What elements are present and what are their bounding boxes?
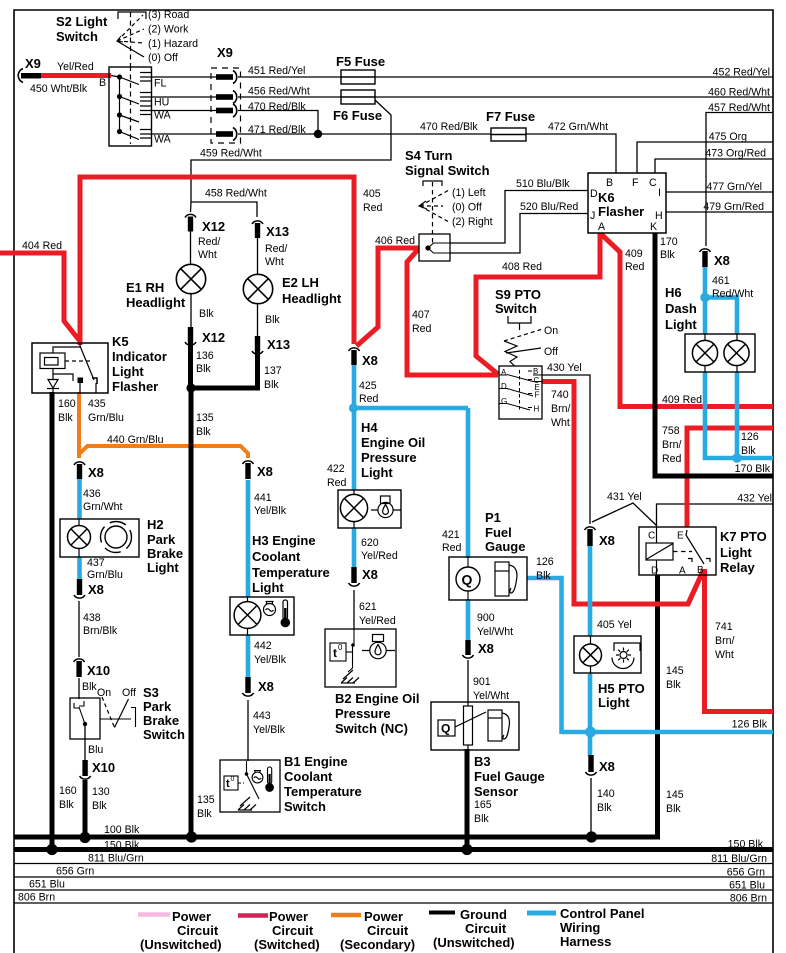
svg-text:P1: P1 <box>485 510 501 525</box>
lamp H6 left <box>692 334 717 372</box>
svg-text:Red/: Red/ <box>265 243 287 255</box>
svg-text:Pressure: Pressure <box>335 706 391 721</box>
svg-text:On: On <box>544 325 558 337</box>
svg-text:Temperature: Temperature <box>252 565 330 580</box>
wire 461 Red/Wht <box>703 265 708 300</box>
svg-text:Blk: Blk <box>196 363 211 375</box>
park brake switch S3 box <box>70 698 100 739</box>
relay K5 internals <box>40 343 96 393</box>
wire 473 Org/Red <box>655 159 773 173</box>
svg-text:K6: K6 <box>598 190 615 205</box>
oil pressure light H4 box <box>338 490 401 528</box>
svg-text:170 Blk: 170 Blk <box>735 463 771 475</box>
svg-text:Blk: Blk <box>741 445 756 457</box>
svg-text:G: G <box>501 397 507 406</box>
turn signal switch S4 box <box>419 234 450 261</box>
svg-text:Signal Switch: Signal Switch <box>405 163 490 178</box>
svg-text:Dash: Dash <box>665 301 697 316</box>
turn signal switch S4 selector <box>419 181 449 244</box>
svg-text:806 Brn: 806 Brn <box>730 893 767 905</box>
coolant temp light H3 box <box>230 597 294 635</box>
svg-text:441: 441 <box>254 492 272 504</box>
lamp E2 <box>243 274 272 303</box>
wire 458 Red/Wht <box>191 202 257 217</box>
svg-text:Light: Light <box>112 364 144 379</box>
svg-text:X12: X12 <box>202 330 225 345</box>
light switch S2 box <box>109 67 152 146</box>
svg-text:451 Red/Yel: 451 Red/Yel <box>248 65 305 77</box>
svg-text:407: 407 <box>412 309 430 321</box>
B1 thermometer icon <box>266 767 274 791</box>
svg-text:B: B <box>606 177 613 189</box>
svg-text:520 Blu/Red: 520 Blu/Red <box>520 201 578 213</box>
wire 145 Blk <box>14 575 658 837</box>
svg-text:X8: X8 <box>362 567 378 582</box>
P1 Q meter <box>456 567 480 591</box>
wire 621 Yel/Red <box>353 590 355 630</box>
svg-text:D: D <box>651 566 658 577</box>
wire 520 Blu/Red <box>450 214 588 254</box>
svg-text:Pressure: Pressure <box>361 450 417 465</box>
svg-text:Red: Red <box>662 453 682 465</box>
wire 126 Blk long horizontal <box>562 730 774 735</box>
svg-text:J: J <box>590 210 595 222</box>
svg-text:0: 0 <box>338 643 343 652</box>
connector X8 at 405 Red <box>349 348 360 365</box>
wire 421 Red <box>466 408 471 558</box>
svg-text:S4 Turn: S4 Turn <box>405 148 452 163</box>
wire 425 Red <box>352 365 357 410</box>
wire 443 Yel/Blk <box>247 700 249 761</box>
node cyan 126/H5 junction <box>585 727 596 738</box>
connector X12 bottom <box>185 327 196 345</box>
svg-text:457 Red/Wht: 457 Red/Wht <box>708 102 770 114</box>
svg-text:Ground: Ground <box>460 907 507 922</box>
svg-text:Blk: Blk <box>660 249 675 261</box>
connector X13 top <box>252 221 263 238</box>
svg-text:Red: Red <box>327 477 347 489</box>
wire 470 Red/Blk <box>238 111 318 135</box>
svg-text:C: C <box>649 177 657 189</box>
svg-text:B: B <box>99 77 106 89</box>
wire 457 Red/Wht <box>706 113 773 247</box>
wire 437 Grn/Blu <box>77 557 82 580</box>
svg-text:135: 135 <box>196 412 214 424</box>
wire 456 Red/Wht <box>238 96 341 98</box>
svg-text:S9 PTO: S9 PTO <box>495 287 541 302</box>
svg-text:Park: Park <box>147 532 176 547</box>
svg-text:406 Red: 406 Red <box>375 235 415 247</box>
wire 406 Red <box>357 248 420 346</box>
wire 811 Blu/Grn <box>14 863 773 865</box>
svg-text:Switch: Switch <box>284 799 326 814</box>
svg-text:Switch: Switch <box>56 29 98 44</box>
wire S2 FL row <box>152 76 218 78</box>
wire H6 lamp1 down <box>705 372 773 458</box>
wire 435 Grn/Blu <box>77 392 81 458</box>
svg-text:510 Blu/Blk: 510 Blu/Blk <box>516 178 570 190</box>
svg-text:461: 461 <box>712 275 730 287</box>
svg-text:Control Panel: Control Panel <box>560 906 645 921</box>
connector X8 below H3 <box>243 677 254 696</box>
wire S2 HU row <box>152 96 218 98</box>
legend black swatch <box>429 911 455 915</box>
svg-text:FL: FL <box>154 78 166 90</box>
B2 internals <box>330 630 354 672</box>
B1 coolant icon <box>252 771 263 783</box>
svg-text:Circuit: Circuit <box>465 921 507 936</box>
svg-text:130: 130 <box>92 786 110 798</box>
svg-text:t: t <box>333 646 337 660</box>
fuse F6 <box>341 90 375 104</box>
svg-text:Fuel: Fuel <box>485 525 512 540</box>
svg-text:438: 438 <box>83 612 101 624</box>
svg-text:F6 Fuse: F6 Fuse <box>333 108 382 123</box>
svg-text:X10: X10 <box>87 663 110 678</box>
svg-text:651 Blu: 651 Blu <box>29 879 65 891</box>
svg-text:B: B <box>533 367 538 376</box>
svg-text:Light: Light <box>361 465 393 480</box>
S3 lever <box>102 697 129 728</box>
wire 806 Brn <box>14 902 773 904</box>
svg-text:150 Blk: 150 Blk <box>728 839 764 851</box>
svg-text:421: 421 <box>442 529 460 541</box>
PTO light relay K7 box <box>639 527 716 575</box>
svg-text:126: 126 <box>741 431 759 443</box>
flasher K6 box <box>588 173 666 233</box>
svg-text:(1) Left: (1) Left <box>452 187 486 199</box>
svg-text:Red: Red <box>412 323 432 335</box>
svg-text:437: 437 <box>87 557 105 569</box>
svg-text:Red/Wht: Red/Wht <box>712 288 753 300</box>
svg-text:422: 422 <box>327 463 345 475</box>
svg-text:X8: X8 <box>714 253 730 268</box>
S4 internal contacts <box>428 243 450 253</box>
svg-text:443: 443 <box>253 710 271 722</box>
wire 438 Brn/Blk <box>78 601 80 657</box>
svg-text:Red/: Red/ <box>198 236 220 248</box>
svg-text:Red: Red <box>363 202 383 214</box>
connector X9 left <box>18 69 41 83</box>
svg-text:Blk: Blk <box>474 813 489 825</box>
svg-text:Coolant: Coolant <box>284 769 333 784</box>
connector X8 at 440 Grn/Blu <box>243 461 254 479</box>
B3 internals <box>438 702 486 750</box>
S3 internals <box>74 701 136 727</box>
svg-text:A: A <box>679 566 686 577</box>
svg-text:475 Org: 475 Org <box>709 131 747 143</box>
svg-text:0: 0 <box>231 776 235 783</box>
svg-text:K7 PTO: K7 PTO <box>720 529 767 544</box>
svg-text:Blk: Blk <box>666 679 681 691</box>
wire 160 Blk <box>50 392 55 851</box>
svg-text:458 Red/Wht: 458 Red/Wht <box>205 188 267 200</box>
wire 459 Red/Wht <box>191 100 391 202</box>
svg-text:Blk: Blk <box>196 426 211 438</box>
svg-text:621: 621 <box>359 601 377 613</box>
wire 432 Yel <box>657 504 774 526</box>
svg-text:Wht: Wht <box>551 417 570 429</box>
wire 510 Blu/Blk <box>450 191 588 244</box>
svg-text:WA: WA <box>154 110 172 122</box>
svg-text:X8: X8 <box>362 353 378 368</box>
svg-text:B1 Engine: B1 Engine <box>284 754 348 769</box>
svg-text:(Secondary): (Secondary) <box>340 937 415 952</box>
svg-text:Red: Red <box>442 542 462 554</box>
svg-text:656 Grn: 656 Grn <box>56 866 94 878</box>
fuel gauge P1 box <box>449 557 527 600</box>
svg-text:405: 405 <box>363 188 381 200</box>
svg-text:Indicator: Indicator <box>112 349 167 364</box>
svg-text:442: 442 <box>254 640 272 652</box>
svg-text:170: 170 <box>660 236 678 248</box>
svg-text:Yel/Red: Yel/Red <box>361 550 398 562</box>
wire 741 Brn/Wht <box>705 569 774 712</box>
lamp E1 <box>176 264 205 293</box>
svg-text:B3: B3 <box>474 754 491 769</box>
svg-text:X10: X10 <box>92 760 115 775</box>
svg-text:741: 741 <box>715 621 733 633</box>
H3 coolant icon <box>264 602 276 616</box>
svg-text:Blk: Blk <box>58 412 73 424</box>
svg-text:Off: Off <box>122 687 136 699</box>
wire 150 Blk bus <box>14 847 773 852</box>
wire H5 feed 405 Yel <box>588 546 593 636</box>
S2 selector arm lines <box>117 15 143 41</box>
svg-text:(2) Work: (2) Work <box>148 24 189 36</box>
svg-text:Yel/Blk: Yel/Blk <box>254 654 287 666</box>
connector X8 below H4 <box>349 567 360 586</box>
wire 430 Yel <box>542 375 590 524</box>
H3 thermometer icon <box>281 600 289 627</box>
svg-text:K: K <box>650 221 657 233</box>
wire 900 Yel/Wht <box>466 599 471 642</box>
svg-text:409: 409 <box>625 248 643 260</box>
svg-text:A: A <box>598 221 606 233</box>
svg-text:X9: X9 <box>25 56 41 71</box>
svg-text:160: 160 <box>59 785 77 797</box>
svg-text:X8: X8 <box>257 464 273 479</box>
svg-text:Yel/Wht: Yel/Wht <box>477 626 513 638</box>
K5 contact squares <box>78 378 84 384</box>
svg-text:620: 620 <box>361 537 379 549</box>
headlight-area boxes done; park brake light H2 box <box>60 519 139 557</box>
svg-text:Yel/Red: Yel/Red <box>57 61 94 73</box>
svg-text:Blk: Blk <box>597 802 612 814</box>
svg-text:Brn/Blk: Brn/Blk <box>83 625 118 637</box>
fuel sensor B3 box <box>431 702 519 750</box>
wire 475 Org <box>637 142 773 173</box>
svg-text:X8: X8 <box>599 533 615 548</box>
svg-text:Red: Red <box>625 261 645 273</box>
svg-text:Light: Light <box>598 695 630 710</box>
fuse F7 <box>491 128 526 141</box>
wire H6 lamp1 feed <box>703 298 708 335</box>
wire S2 WA2 row <box>152 133 218 135</box>
svg-text:H6: H6 <box>665 285 682 300</box>
svg-text:t: t <box>226 778 230 790</box>
svg-text:656 Grn: 656 Grn <box>727 867 765 879</box>
svg-text:Blk: Blk <box>264 379 279 391</box>
svg-text:S2 Light: S2 Light <box>56 14 108 29</box>
svg-text:X8: X8 <box>478 641 494 656</box>
svg-text:470 Red/Blk: 470 Red/Blk <box>248 101 306 113</box>
wire H4 feed <box>352 408 357 490</box>
svg-text:Grn/Wht: Grn/Wht <box>83 501 122 513</box>
svg-text:Brn/: Brn/ <box>551 403 570 415</box>
svg-text:HU: HU <box>154 97 169 109</box>
node 130 Blk on 100 bus <box>79 832 90 843</box>
svg-text:405 Yel: 405 Yel <box>597 619 632 631</box>
dash light H6 box <box>685 334 755 372</box>
wire 740 Brn/Wht <box>542 382 704 605</box>
B2 oil can icon <box>362 635 395 659</box>
PTO light H5 box <box>574 636 641 673</box>
wire 452 Red/Yel <box>375 76 773 78</box>
B3 fuel pump icon <box>488 710 509 741</box>
svg-text:901: 901 <box>473 676 491 688</box>
svg-text:X12: X12 <box>202 219 225 234</box>
wire 136 Blk <box>188 341 193 388</box>
svg-text:E: E <box>677 531 684 542</box>
svg-text:477 Grn/Yel: 477 Grn/Yel <box>706 181 762 193</box>
svg-text:E1 RH: E1 RH <box>126 280 164 295</box>
svg-text:Temperature: Temperature <box>284 784 362 799</box>
connector X9 row3 <box>216 104 237 117</box>
svg-text:459 Red/Wht: 459 Red/Wht <box>200 148 262 160</box>
svg-text:Brake: Brake <box>147 546 183 561</box>
node cyan H4 junction <box>349 403 358 412</box>
lamp H4 <box>340 490 367 528</box>
svg-text:Switch (NC): Switch (NC) <box>335 721 408 736</box>
connector X10 below S3 <box>80 760 91 779</box>
svg-text:(Unswitched): (Unswitched) <box>433 935 515 950</box>
node cyan H6 junction <box>700 293 710 303</box>
node 160 Blk on 150 bus <box>46 844 57 855</box>
svg-text:430 Yel: 430 Yel <box>547 362 582 374</box>
svg-text:H2: H2 <box>147 517 164 532</box>
svg-text:Blk: Blk <box>82 681 97 693</box>
diode K5 <box>48 380 58 389</box>
svg-text:X8: X8 <box>88 582 104 597</box>
wire 656 Grn <box>14 876 773 878</box>
wire 620 Yel/Red <box>352 528 357 568</box>
svg-text:651 Blu: 651 Blu <box>729 880 765 892</box>
oil pressure switch B2 box <box>325 629 396 687</box>
connector X9 row2 <box>216 91 237 104</box>
svg-text:Red: Red <box>359 393 379 405</box>
svg-text:B: B <box>697 565 704 576</box>
svg-text:I: I <box>658 187 661 199</box>
K7 internals <box>646 526 710 575</box>
svg-text:H: H <box>534 405 540 414</box>
wire H6 branch <box>705 298 737 335</box>
svg-text:Q: Q <box>462 572 473 588</box>
svg-text:456 Red/Wht: 456 Red/Wht <box>248 86 310 98</box>
svg-text:436: 436 <box>83 488 101 500</box>
S9 internal contacts <box>499 370 542 411</box>
svg-text:Grn/Blu: Grn/Blu <box>88 412 124 424</box>
wire E2 top lead <box>257 238 259 275</box>
svg-text:F5 Fuse: F5 Fuse <box>336 54 385 69</box>
svg-text:Headlight: Headlight <box>126 295 186 310</box>
S2 pivot dots <box>117 74 122 134</box>
wire 126 Blk from P1 <box>527 578 562 734</box>
connector X9 row1 <box>216 71 237 84</box>
S2 contact bars <box>140 73 151 139</box>
wire 408 Red <box>476 233 600 375</box>
wire 436 Grn/Wht <box>77 479 82 519</box>
svg-text:Off: Off <box>544 346 558 358</box>
svg-text:473 Org/Red: 473 Org/Red <box>705 148 766 160</box>
svg-text:WA: WA <box>154 134 172 146</box>
wire 479 Grn/Red <box>666 211 773 213</box>
svg-text:X13: X13 <box>266 224 289 239</box>
S2 common bar and wipers <box>111 76 139 140</box>
connector X8 below H5 <box>586 755 597 775</box>
P1 internal leads <box>467 557 469 600</box>
wire 758 Brn/Red <box>687 428 773 527</box>
svg-text:(0) Off: (0) Off <box>452 202 482 214</box>
svg-text:Flasher: Flasher <box>112 379 158 394</box>
svg-text:Wiring: Wiring <box>560 920 600 935</box>
svg-text:B2 Engine Oil: B2 Engine Oil <box>335 691 420 706</box>
wire 170 Blk overlay at 409 crossing <box>653 396 658 417</box>
svg-text:On: On <box>97 687 111 699</box>
wire E1 top lead <box>190 231 192 265</box>
svg-text:Sensor: Sensor <box>474 784 518 799</box>
svg-text:(2) Right: (2) Right <box>452 216 493 228</box>
wire 405 Red <box>80 177 354 345</box>
node 165 Blk on 150 bus <box>461 844 472 855</box>
svg-text:Blk: Blk <box>59 799 74 811</box>
connector X12 top <box>185 214 196 231</box>
svg-text:Circuit: Circuit <box>177 923 219 938</box>
connector X9 column dashed bracket <box>211 68 241 143</box>
svg-text:Blk: Blk <box>197 808 212 820</box>
svg-text:140: 140 <box>597 788 615 800</box>
svg-text:(Unswitched): (Unswitched) <box>140 937 222 952</box>
connector X10 above S3 <box>74 659 85 677</box>
PTO switch S9 lever <box>504 316 541 366</box>
legend cyan swatch <box>527 911 556 916</box>
connector X8 at K5 output <box>74 462 85 479</box>
svg-text:H3 Engine: H3 Engine <box>252 533 316 548</box>
svg-text:Circuit: Circuit <box>367 923 409 938</box>
lamp H5 <box>580 636 602 674</box>
svg-text:137: 137 <box>264 365 282 377</box>
svg-text:126 Blk: 126 Blk <box>732 719 768 731</box>
svg-text:Wht: Wht <box>198 249 217 261</box>
svg-text:165: 165 <box>474 799 492 811</box>
svg-text:Blk: Blk <box>265 314 280 326</box>
svg-text:F7 Fuse: F7 Fuse <box>486 109 535 124</box>
svg-text:X13: X13 <box>267 337 290 352</box>
svg-text:Light: Light <box>720 545 752 560</box>
svg-text:Brn/: Brn/ <box>662 439 681 451</box>
wire 165 Blk <box>465 749 470 851</box>
svg-text:Headlight: Headlight <box>282 291 342 306</box>
H4 oil can icon <box>371 496 401 518</box>
node 135 Blk on 100 bus <box>186 831 197 842</box>
svg-text:X8: X8 <box>88 465 104 480</box>
svg-text:Yel/Blk: Yel/Blk <box>253 724 286 736</box>
legend orange swatch <box>331 913 361 918</box>
svg-text:F: F <box>632 177 639 189</box>
svg-text:136: 136 <box>196 350 214 362</box>
wire 170 Blk <box>655 233 773 476</box>
svg-text:X8: X8 <box>258 679 274 694</box>
